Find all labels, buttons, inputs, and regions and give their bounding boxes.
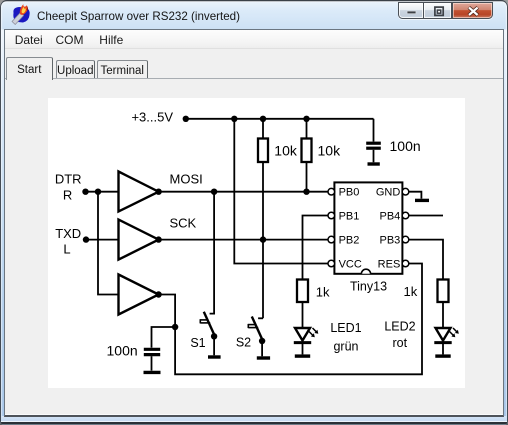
tab Start (active) [6, 57, 53, 80]
ground S1 [208, 355, 221, 358]
svg-text:100n: 100n [390, 138, 421, 154]
junction rail / 10k pull-up SCK [260, 116, 266, 122]
wire +V supply rail [186, 118, 374, 120]
svg-text:+3...5V: +3...5V [131, 110, 173, 125]
svg-text:PB1: PB1 [339, 211, 360, 223]
wire GND pin to ground [409, 192, 422, 199]
tab Terminal [97, 60, 148, 79]
IC notch [361, 269, 370, 274]
svg-text:rot: rot [393, 336, 408, 350]
ground GND pin [415, 199, 429, 202]
ground S2 [257, 356, 270, 359]
resistor 10k (MOSI pull-up) [302, 139, 312, 163]
svg-text:GND: GND [376, 187, 401, 199]
wire PB1 to LED1 column [303, 216, 329, 280]
wire to reset 100n capacitor [152, 327, 176, 348]
wire PB3 to LED2 column [409, 240, 443, 280]
resistor 1k (LED2) [438, 280, 449, 303]
switch S2 [248, 317, 263, 342]
junction rail / 10k pull-up MOSI [303, 116, 309, 122]
svg-text:MOSI: MOSI [170, 171, 203, 186]
resistor 10k (SCK pull-up) [258, 139, 268, 163]
pin PB0 [328, 188, 335, 195]
svg-text:SCK: SCK [170, 216, 197, 231]
junction reset line / 100n [172, 324, 178, 330]
pin RES [402, 260, 409, 267]
svg-text:R: R [63, 188, 72, 203]
ground LED1 [295, 354, 310, 357]
LED1 (green) [294, 328, 319, 354]
wire VCC column [234, 119, 328, 264]
svg-text:S1: S1 [190, 336, 205, 350]
LED2 (red) [434, 328, 459, 354]
svg-text:1k: 1k [404, 284, 418, 299]
schematic canvas [48, 98, 465, 388]
buffer driver 2 (SCK) [119, 220, 159, 260]
svg-text:1k: 1k [316, 285, 330, 300]
svg-text:PB2: PB2 [339, 235, 360, 247]
wire S1 column [210, 192, 215, 314]
wire DTR to buffer1 input [86, 191, 119, 193]
wire 10k MOSI pull-up top [306, 119, 308, 139]
wire SCK row [159, 239, 329, 241]
svg-text:grün: grün [333, 339, 358, 353]
wire 10k SCK bottom down to S2 [262, 162, 264, 318]
junction S2 lower contact [259, 338, 265, 344]
wire S1 to ground [213, 336, 215, 355]
svg-text:10k: 10k [274, 143, 298, 159]
node DTR input [82, 189, 88, 195]
wire DTR down to buffer3 input [98, 192, 118, 295]
title text [37, 10, 240, 23]
wire S2 to ground [261, 341, 263, 356]
ground below supply 100n [368, 162, 380, 165]
svg-text:Tiny13: Tiny13 [350, 280, 387, 294]
tab strip base line [5, 78, 503, 79]
wire 10k SCK pull-up top [262, 119, 264, 139]
junction MOSI / 10k pull-up [303, 189, 309, 195]
junction buffer1 output [155, 189, 161, 195]
junction SCK / 10k and S2 [260, 236, 266, 242]
pin GND [402, 188, 409, 195]
pin PB3 [402, 236, 409, 243]
svg-text:S2: S2 [236, 335, 251, 349]
wire buffer3 output to bottom rail [159, 264, 422, 375]
svg-text:DTR: DTR [55, 171, 82, 186]
svg-text:LED1: LED1 [330, 321, 361, 335]
minimize button [398, 2, 424, 20]
junction rail / VCC column [231, 116, 237, 122]
resistor 1k (LED1) [297, 280, 308, 303]
close button [452, 2, 493, 20]
switch S1 [200, 312, 215, 337]
title bar icon [11, 4, 32, 25]
capacitor 100n (supply decoupling) [366, 119, 381, 163]
wire MOSI row [159, 191, 329, 193]
svg-text:100n: 100n [107, 342, 138, 358]
pin VCC [328, 260, 335, 267]
junction DTR split to buffer3 [95, 189, 101, 195]
svg-text:LED2: LED2 [384, 320, 415, 334]
wire 1k to LED1 [302, 302, 304, 328]
menu bar [5, 30, 503, 49]
wire TXD to buffer2 input [86, 239, 118, 241]
junction buffer2 output [155, 236, 161, 242]
wire PB4 stub [409, 215, 443, 217]
svg-text:PB3: PB3 [380, 235, 401, 247]
buffer driver 1 (MOSI) [119, 172, 159, 212]
buffer driver 3 (RESET) [119, 275, 159, 315]
svg-text:PB4: PB4 [380, 211, 401, 223]
capacitor 100n (reset) [144, 349, 160, 370]
ground LED2 [435, 354, 450, 357]
ground below reset 100n [144, 371, 161, 374]
svg-text:10k: 10k [318, 143, 342, 159]
window button glyphs [398, 2, 493, 19]
junction MOSI / S1 column [211, 189, 217, 195]
maximize button [424, 2, 452, 20]
junction S1 lower contact [211, 333, 217, 339]
svg-text:RES: RES [378, 259, 401, 271]
svg-text:TXD: TXD [55, 226, 81, 241]
wire 10k MOSI bottom [306, 162, 308, 192]
wire S2 upper contact [258, 317, 263, 319]
pin PB2 [328, 236, 335, 243]
svg-text:VCC: VCC [339, 259, 362, 271]
pin PB4 [402, 212, 409, 219]
node TXD input [83, 236, 89, 242]
svg-text:L: L [63, 241, 70, 256]
pin PB1 [328, 212, 335, 219]
IC U1 ATtiny13 body [334, 182, 402, 273]
wire 1k to LED2 [442, 302, 444, 328]
tab Upload [56, 60, 95, 79]
junction buffer3 output [155, 291, 161, 297]
node +3...5V [183, 116, 189, 122]
svg-text:PB0: PB0 [339, 187, 360, 199]
